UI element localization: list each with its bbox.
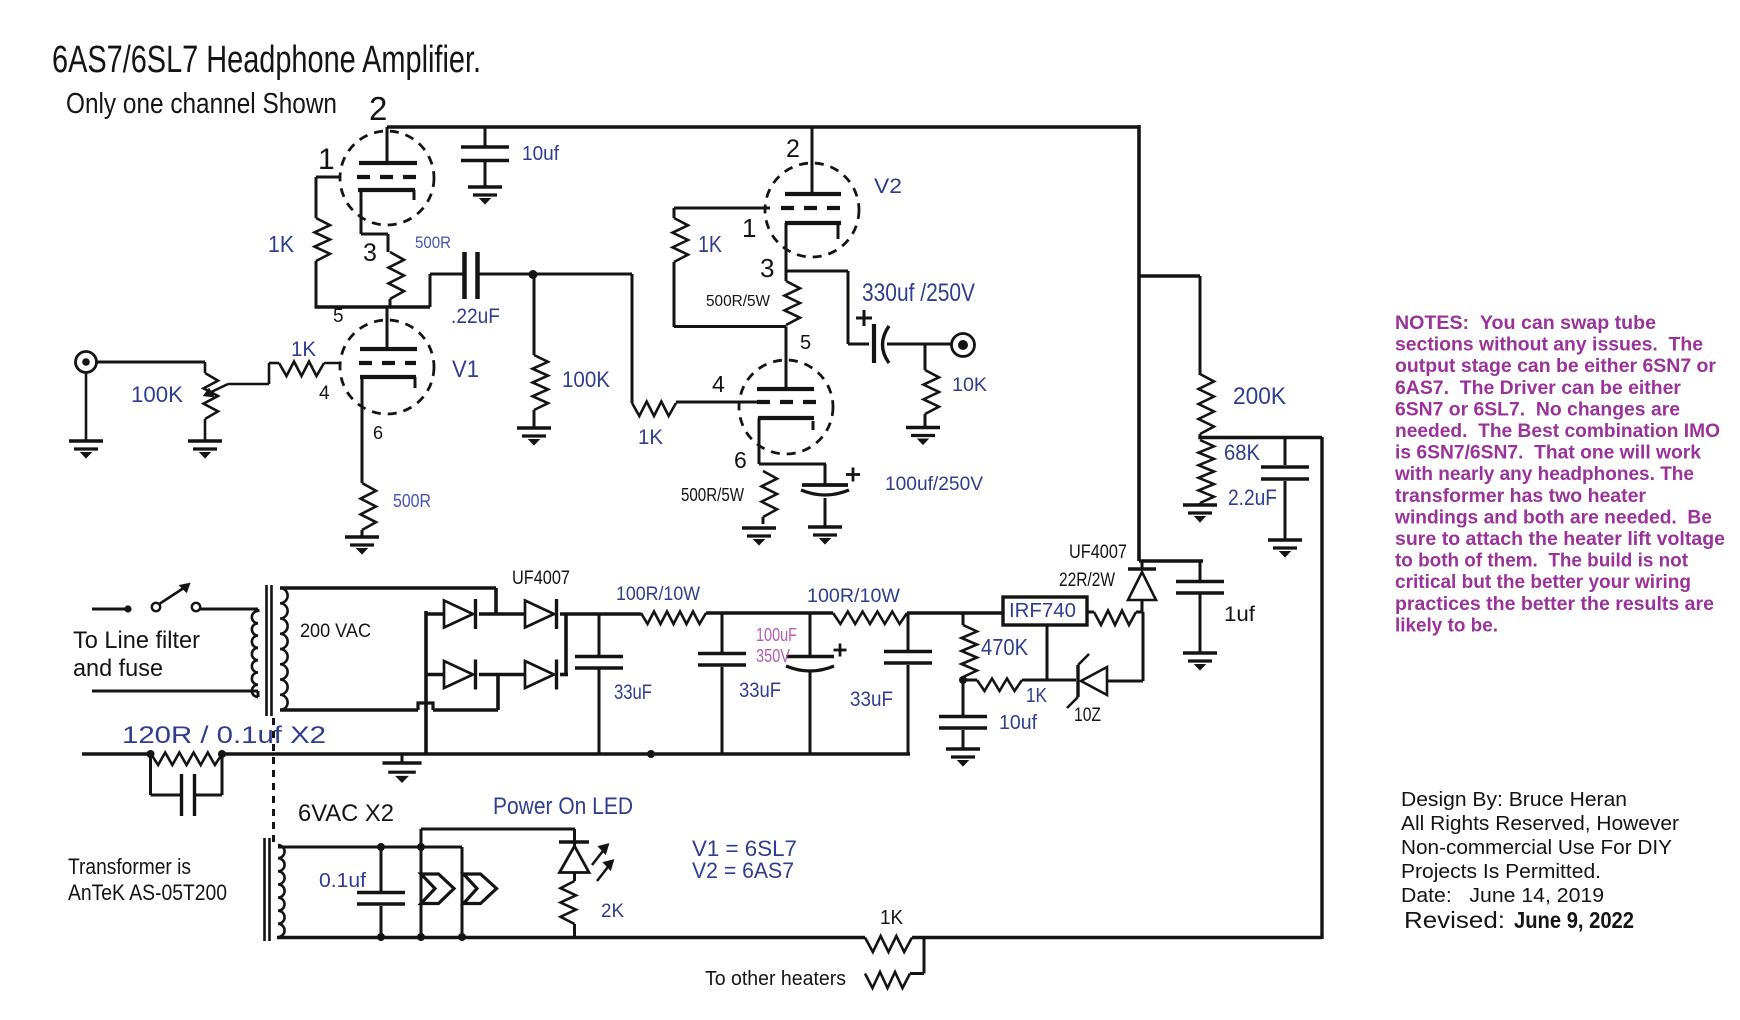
svg-text:33uF: 33uF	[850, 688, 893, 711]
svg-text:1K: 1K	[698, 231, 723, 257]
svg-text:to both of them. The build is: to both of them. The build is not	[1395, 550, 1688, 572]
svg-text:Only one channel Shown: Only one channel Shown	[66, 88, 337, 120]
svg-text:To Line filter: To Line filter	[73, 627, 200, 654]
svg-text:transformer has two heater: transformer has two heater	[1395, 485, 1646, 507]
svg-text:350V: 350V	[756, 646, 790, 666]
svg-text:sections without any issues.: sections without any issues. The	[1395, 334, 1703, 356]
svg-text:V2 = 6AS7: V2 = 6AS7	[692, 858, 794, 883]
svg-text:Revised:: Revised:	[1404, 907, 1505, 933]
svg-text:1K: 1K	[291, 338, 316, 361]
svg-text:1: 1	[742, 213, 756, 243]
svg-text:and fuse: and fuse	[73, 655, 163, 682]
svg-text:33uF: 33uF	[739, 679, 781, 702]
svg-text:0.1uf: 0.1uf	[319, 870, 366, 892]
svg-text:Projects Is Permitted.: Projects Is Permitted.	[1401, 860, 1601, 883]
svg-text:100R/10W: 100R/10W	[807, 586, 900, 607]
svg-text:22R/2W: 22R/2W	[1059, 570, 1115, 591]
svg-text:IRF740: IRF740	[1009, 600, 1076, 622]
svg-text:100K: 100K	[562, 367, 610, 392]
svg-text:1K: 1K	[268, 231, 295, 257]
svg-text:33uF: 33uF	[614, 681, 652, 704]
svg-text:June 9, 2022: June 9, 2022	[1514, 907, 1634, 933]
svg-text:1K: 1K	[638, 426, 663, 449]
svg-text:Transformer is: Transformer is	[68, 854, 191, 879]
svg-text:5: 5	[333, 306, 344, 327]
svg-text:1K: 1K	[880, 907, 904, 929]
svg-text:10uf: 10uf	[999, 712, 1037, 734]
svg-text:2: 2	[786, 135, 800, 163]
svg-text:470K: 470K	[981, 634, 1029, 660]
svg-text:6: 6	[373, 423, 383, 443]
svg-text:AnTeK AS-05T200: AnTeK AS-05T200	[68, 880, 227, 905]
svg-text:68K: 68K	[1224, 440, 1260, 465]
svg-text:5: 5	[800, 332, 811, 354]
svg-text:10Z: 10Z	[1074, 705, 1101, 726]
svg-text:with nearly any headphones. Th: with nearly any headphones. The	[1394, 463, 1694, 485]
svg-text:120R / 0.1uf X2: 120R / 0.1uf X2	[122, 722, 326, 749]
svg-text:To other heaters: To other heaters	[705, 968, 846, 990]
svg-text:2.2uF: 2.2uF	[1228, 485, 1277, 510]
svg-text:.22uF: .22uF	[451, 305, 500, 328]
svg-text:10K: 10K	[952, 375, 987, 396]
svg-text:100uf/250V: 100uf/250V	[885, 474, 983, 495]
svg-text:3: 3	[760, 253, 774, 283]
svg-text:practices the better the resul: practices the better the results are	[1395, 593, 1714, 615]
svg-text:windings and both are needed.: windings and both are needed. Be	[1394, 506, 1712, 528]
svg-text:Non-commercial Use For DIY: Non-commercial Use For DIY	[1401, 836, 1672, 859]
svg-text:6VAC X2: 6VAC X2	[298, 800, 394, 827]
svg-text:output stage can be either 6SN: output stage can be either 6SN7 or	[1395, 355, 1716, 377]
svg-text:200 VAC: 200 VAC	[300, 621, 371, 642]
svg-text:2: 2	[369, 90, 387, 127]
svg-text:NOTES: You can swap tube: NOTES: You can swap tube	[1395, 312, 1656, 334]
svg-text:All Rights Reserved, However: All Rights Reserved, However	[1401, 812, 1679, 835]
svg-text:UF4007: UF4007	[512, 568, 570, 589]
svg-text:needed. The Best combination: needed. The Best combination IMO	[1395, 420, 1720, 442]
svg-text:sure to attach the heater lift: sure to attach the heater lift voltage	[1395, 528, 1725, 550]
svg-text:100R/10W: 100R/10W	[616, 584, 700, 605]
svg-text:Date: June 14, 2019: Date: June 14, 2019	[1401, 884, 1604, 907]
svg-text:1uf: 1uf	[1224, 603, 1255, 626]
svg-text:500R/5W: 500R/5W	[681, 485, 744, 505]
svg-text:500R/5W: 500R/5W	[706, 293, 771, 310]
svg-text:10uf: 10uf	[522, 143, 559, 165]
svg-text:V1: V1	[452, 356, 479, 383]
svg-text:200K: 200K	[1233, 383, 1286, 410]
svg-text:V2: V2	[874, 175, 902, 198]
svg-text:UF4007: UF4007	[1069, 542, 1127, 563]
svg-text:6: 6	[734, 447, 747, 473]
svg-text:500R: 500R	[393, 491, 431, 511]
svg-text:6AS7. The Driver can be eithe: 6AS7. The Driver can be either	[1395, 377, 1681, 399]
svg-text:Power On LED: Power On LED	[493, 793, 633, 820]
svg-text:6SN7 or 6SL7. No changes are: 6SN7 or 6SL7. No changes are	[1395, 398, 1680, 420]
svg-text:4: 4	[712, 371, 725, 397]
svg-text:Design By: Bruce Heran: Design By: Bruce Heran	[1401, 788, 1627, 811]
svg-text:100uF: 100uF	[756, 625, 797, 645]
svg-text:6AS7/6SL7 Headphone Amplifier.: 6AS7/6SL7 Headphone Amplifier.	[52, 39, 481, 81]
svg-text:2K: 2K	[601, 901, 624, 922]
svg-text:1: 1	[318, 143, 335, 176]
svg-text:likely to be.: likely to be.	[1395, 614, 1498, 636]
svg-text:1K: 1K	[1026, 685, 1048, 707]
svg-text:500R: 500R	[415, 233, 451, 252]
svg-text:critical but the better your w: critical but the better your wiring	[1395, 571, 1691, 593]
svg-text:3: 3	[363, 239, 377, 267]
svg-text:4: 4	[319, 383, 330, 404]
svg-text:is 6SN7/6SN7. That one will w: is 6SN7/6SN7. That one will work	[1395, 442, 1701, 464]
svg-text:100K: 100K	[131, 382, 183, 407]
svg-text:330uf /250V: 330uf /250V	[862, 279, 975, 307]
